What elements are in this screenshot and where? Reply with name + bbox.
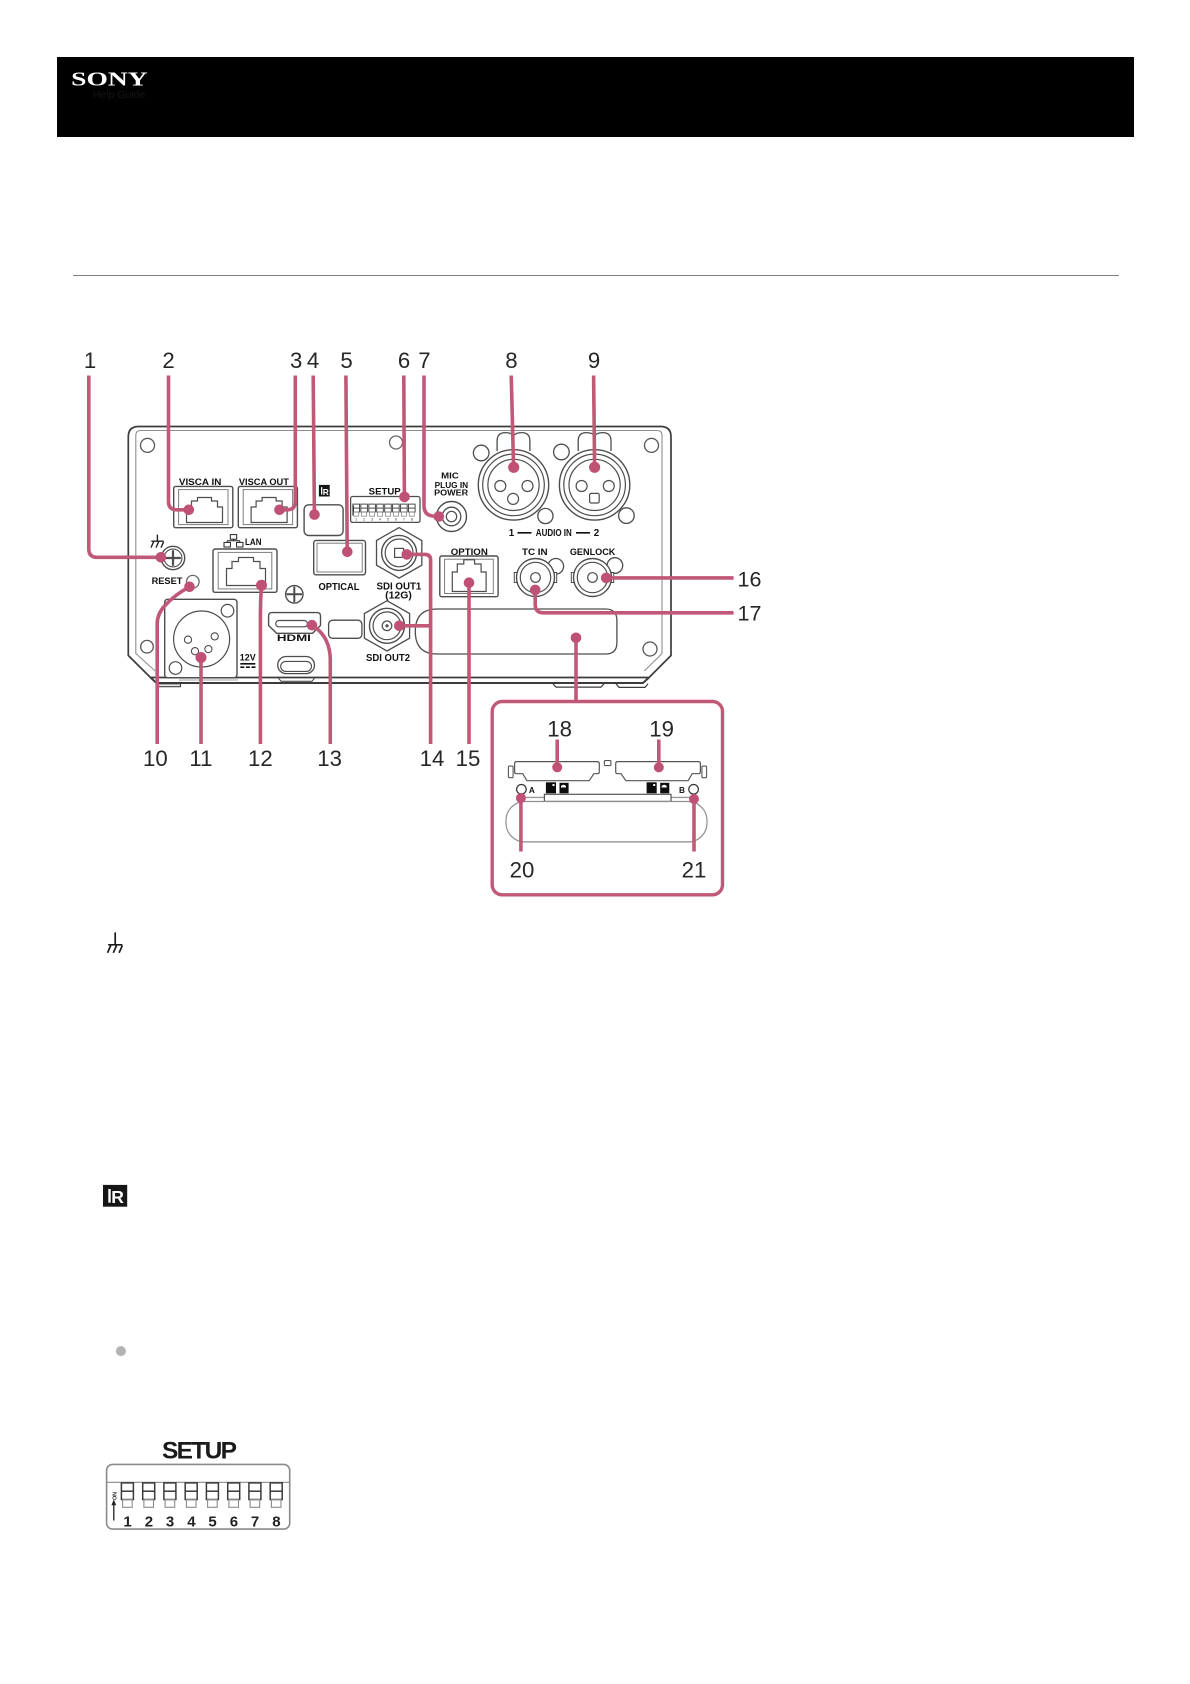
corner screw top-left xyxy=(141,438,155,452)
label 1-AUDIO IN-2 xyxy=(509,528,600,539)
svg-text:4: 4 xyxy=(307,348,319,373)
pink callout leader lines xyxy=(89,376,734,895)
leader 16 xyxy=(606,576,733,580)
svg-text:AUDIO IN: AUDIO IN xyxy=(536,528,572,539)
panel bottom body line xyxy=(151,678,650,684)
svg-text:(12G): (12G) xyxy=(385,591,412,602)
leader 19 xyxy=(657,740,661,768)
svg-text:12V: 12V xyxy=(240,653,256,663)
label MIC PLUG IN POWER xyxy=(434,470,469,497)
svg-text:R: R xyxy=(111,1187,124,1207)
leader 18 xyxy=(555,740,559,768)
leader 5 xyxy=(346,376,347,552)
dot 2 xyxy=(184,505,195,516)
slot lid rect xyxy=(544,794,671,801)
leader 9 xyxy=(594,376,595,468)
leader 13 xyxy=(312,625,330,744)
svg-text:6: 6 xyxy=(230,1514,238,1531)
XLR1 latch tab xyxy=(497,433,530,451)
IR sensor mark (black R square) xyxy=(319,485,330,497)
svg-text:12: 12 xyxy=(248,746,273,771)
leader 8 xyxy=(511,376,513,468)
svg-text:19: 19 xyxy=(649,716,674,741)
dot 21 xyxy=(689,794,699,804)
leader 15 xyxy=(467,583,471,744)
dot 1 xyxy=(156,552,167,563)
svg-text:5: 5 xyxy=(340,348,352,373)
dot 15 xyxy=(464,577,475,588)
svg-text:1: 1 xyxy=(509,528,515,539)
ground symbol (body text) xyxy=(108,932,123,952)
svg-text:21: 21 xyxy=(682,857,707,882)
svg-text:R: R xyxy=(323,487,329,497)
card slot detail: card A xyxy=(508,762,599,781)
svg-text:B: B xyxy=(679,786,685,795)
svg-text:7: 7 xyxy=(251,1514,259,1531)
eject buttons slot A xyxy=(546,782,569,793)
ground screw terminal xyxy=(161,546,184,569)
svg-text:3: 3 xyxy=(290,348,302,373)
svg-text:SETUP: SETUP xyxy=(162,1437,237,1464)
slot door outline xyxy=(506,802,707,843)
dot 7 xyxy=(434,511,445,522)
dot 5 xyxy=(342,547,353,558)
connector VISCA IN (RJ45) xyxy=(174,486,233,527)
SONY logo xyxy=(57,57,357,137)
svg-text:7: 7 xyxy=(403,517,405,521)
svg-text:1: 1 xyxy=(355,517,357,521)
XLR2 side screw top-left xyxy=(554,444,570,460)
dot 6 xyxy=(399,492,410,503)
svg-text:MIC: MIC xyxy=(441,470,459,480)
OPTICAL cage xyxy=(314,540,366,574)
dot 4 xyxy=(309,509,320,520)
dot cover xyxy=(571,633,582,644)
eject buttons slot B xyxy=(647,782,670,793)
dot 9 xyxy=(589,462,600,473)
IR sensor window xyxy=(304,505,343,536)
small rect between cards xyxy=(604,761,611,766)
connector AUDIO IN 1 (XLR) xyxy=(478,450,548,520)
leader 4 xyxy=(313,376,314,515)
access LED B xyxy=(689,785,699,795)
svg-text:POWER: POWER xyxy=(434,488,469,498)
dot 3 xyxy=(274,505,285,516)
svg-text:2: 2 xyxy=(145,1514,153,1531)
connector VISCA OUT (RJ45) xyxy=(238,486,297,527)
leader 6 xyxy=(402,376,406,497)
svg-text:14: 14 xyxy=(420,746,445,771)
svg-text:HDMI: HDMI xyxy=(277,633,311,643)
leader 12 xyxy=(260,585,261,744)
connector AUDIO IN 2 (XLR) xyxy=(559,450,629,520)
svg-text:TC IN: TC IN xyxy=(522,546,548,557)
panel feet xyxy=(159,678,649,688)
dot 16 xyxy=(601,573,612,584)
svg-text:8: 8 xyxy=(505,348,517,373)
dot 14a xyxy=(402,549,413,560)
svg-text:5: 5 xyxy=(208,1514,216,1531)
panel outline xyxy=(128,427,671,678)
leader 17 xyxy=(535,590,733,613)
svg-text:2: 2 xyxy=(363,517,365,521)
corner screw top-right xyxy=(645,438,659,452)
svg-text:2: 2 xyxy=(162,348,174,373)
door bottom line xyxy=(523,841,695,843)
access LED A xyxy=(517,785,527,795)
dot 12 xyxy=(256,580,267,591)
connector LAN (RJ45) xyxy=(213,549,277,592)
svg-text:8: 8 xyxy=(272,1514,280,1531)
svg-text:20: 20 xyxy=(510,857,535,882)
svg-text:RESET: RESET xyxy=(152,575,183,586)
dot 17 xyxy=(530,585,541,596)
corner screw bottom-right xyxy=(643,642,657,656)
leader 20 xyxy=(519,798,523,852)
card slot detail: card B xyxy=(616,762,707,781)
svg-text:6: 6 xyxy=(398,348,410,373)
svg-text:5: 5 xyxy=(387,517,389,521)
USB connector xyxy=(278,657,315,674)
svg-text:8: 8 xyxy=(411,517,413,521)
XLR1 side screw bottom-right xyxy=(538,508,553,523)
pink leader dots xyxy=(156,462,699,804)
XLR1 side screw top-left xyxy=(473,445,489,461)
svg-text:LAN: LAN xyxy=(245,536,262,547)
svg-text:18: 18 xyxy=(547,716,572,741)
callout numbers xyxy=(84,348,762,883)
connector OPTION (RJ45) xyxy=(440,556,498,597)
IR remote icon (body text) xyxy=(103,1185,127,1207)
svg-text:16: 16 xyxy=(738,567,762,591)
dot 18 xyxy=(552,762,562,772)
cross screw center xyxy=(286,586,303,603)
svg-text:2: 2 xyxy=(594,528,600,539)
dot 8 xyxy=(508,462,519,473)
XLR2 latch tab xyxy=(578,433,611,451)
svg-text:10: 10 xyxy=(143,746,168,771)
XLR2 side screw bottom-right xyxy=(619,508,635,524)
svg-text:17: 17 xyxy=(738,602,762,626)
svg-text:GENLOCK: GENLOCK xyxy=(570,546,616,557)
svg-text:6: 6 xyxy=(395,517,397,521)
svg-text:3: 3 xyxy=(166,1514,174,1531)
leader 14 branch SDI OUT2 xyxy=(399,624,430,628)
svg-text:OPTICAL: OPTICAL xyxy=(319,582,360,593)
list bullet xyxy=(116,1346,126,1356)
leader 3 xyxy=(280,376,296,510)
leader to card slot box xyxy=(574,638,578,701)
leader 11 xyxy=(199,658,203,745)
svg-text:VISCA IN: VISCA IN xyxy=(179,476,222,487)
svg-text:VISCA OUT: VISCA OUT xyxy=(239,476,289,487)
svg-text:13: 13 xyxy=(317,746,342,771)
svg-text:4: 4 xyxy=(379,517,381,521)
svg-text:4: 4 xyxy=(187,1514,196,1531)
DC IN 12V power connector (XLR 4-pin) xyxy=(165,599,237,677)
card slot cover plate xyxy=(415,609,617,654)
blank plate right of HDMI xyxy=(329,620,362,638)
svg-text:A: A xyxy=(529,786,535,795)
svg-text:1: 1 xyxy=(84,348,96,373)
dot 13 xyxy=(307,620,318,631)
leader 7 xyxy=(424,376,439,517)
leader 21 xyxy=(692,799,696,852)
card slot detail box xyxy=(492,702,722,895)
header bar xyxy=(57,57,1134,137)
horizontal rule xyxy=(73,275,1119,276)
dot 14b xyxy=(394,621,405,632)
connector TC IN (BNC) xyxy=(514,559,563,597)
dot 19 xyxy=(654,762,664,772)
ground symbol (panel) xyxy=(151,535,164,548)
svg-text:ON: ON xyxy=(112,1492,118,1500)
leader 10 xyxy=(157,587,189,744)
svg-text:11: 11 xyxy=(189,746,212,771)
dot 20 xyxy=(516,793,526,803)
svg-text:SETUP: SETUP xyxy=(369,486,401,497)
corner screw bottom-left xyxy=(141,640,154,653)
svg-text:9: 9 xyxy=(588,348,600,373)
svg-text:SDI OUT2: SDI OUT2 xyxy=(366,653,411,664)
connector GENLOCK (BNC) xyxy=(571,558,622,597)
leader 2 xyxy=(169,376,189,510)
LAN network icon xyxy=(224,535,243,547)
svg-text:7: 7 xyxy=(418,348,430,373)
SETUP dip switch block xyxy=(351,497,420,523)
connector HDMI xyxy=(269,613,321,634)
label SDI OUT1 (12G) xyxy=(377,581,422,601)
svg-text:OPTION: OPTION xyxy=(451,546,488,557)
RESET hole xyxy=(187,575,200,588)
dot 11 xyxy=(196,652,207,663)
svg-text:15: 15 xyxy=(456,746,481,771)
leader 14 xyxy=(407,554,431,744)
connector SDI OUT1 (12G) xyxy=(377,528,422,579)
svg-text:1: 1 xyxy=(123,1514,131,1531)
svg-text:3: 3 xyxy=(371,517,373,521)
dot 10 xyxy=(184,582,195,593)
gray shelf line xyxy=(523,796,695,798)
small hole top-center xyxy=(390,436,403,449)
leader 1 xyxy=(89,376,161,558)
MIC jack xyxy=(437,502,467,532)
label 12V DC xyxy=(240,653,256,663)
SETUP switch illustration xyxy=(107,1464,290,1530)
connector SDI OUT2 xyxy=(364,601,409,651)
